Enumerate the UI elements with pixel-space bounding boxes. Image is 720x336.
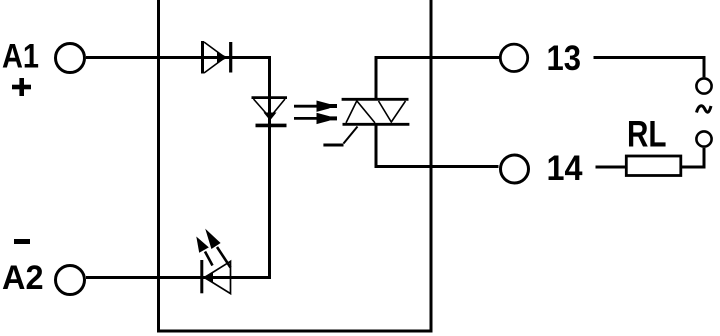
svg-text:A1: A1 [2,38,39,76]
svg-text:A2: A2 [2,259,44,297]
svg-text:RL: RL [627,114,667,155]
svg-text:14: 14 [547,149,583,188]
svg-text:13: 13 [547,39,582,78]
